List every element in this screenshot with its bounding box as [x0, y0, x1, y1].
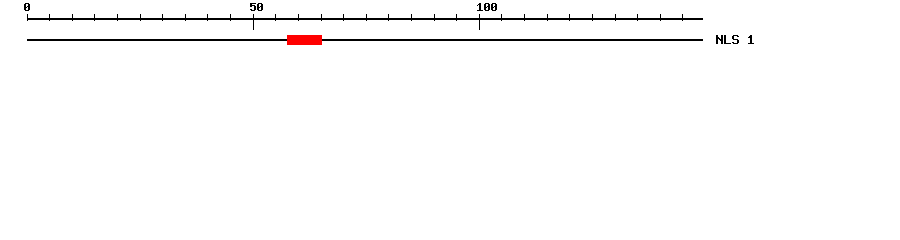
- ruler label 0: [24, 3, 30, 11]
- ruler tick at residue 10: [72, 14, 73, 21]
- ruler tick at residue 15: [94, 14, 95, 21]
- ruler tick at residue 120: [569, 14, 570, 21]
- ruler tick at residue 80: [388, 14, 389, 21]
- ruler tick at residue 65: [321, 14, 322, 21]
- ruler tick at residue 25: [140, 14, 141, 21]
- feature label NLS 1: [716, 35, 754, 44]
- ruler tick at residue 45: [230, 14, 231, 21]
- ruler tick at residue 70: [343, 14, 344, 21]
- sequence backbone line: [27, 39, 703, 41]
- ruler tick at residue 90: [434, 14, 435, 21]
- ruler tick at residue 115: [547, 14, 548, 21]
- ruler tick at residue 105: [501, 14, 502, 21]
- ruler tick at residue 55: [275, 14, 276, 21]
- ruler tick at residue 75: [366, 14, 367, 21]
- ruler tick at residue 130: [615, 14, 616, 21]
- major ruler tick at residue 50: [253, 14, 254, 30]
- ruler tick at residue 85: [411, 14, 412, 21]
- ruler tick at residue 40: [207, 14, 208, 21]
- ruler tick at residue 135: [637, 14, 638, 21]
- NLS 1 feature box (red, residues ~58-65): [287, 35, 322, 45]
- ruler tick at residue 30: [162, 14, 163, 21]
- ruler tick at residue 95: [456, 14, 457, 21]
- ruler axis line: [27, 18, 703, 20]
- ruler tick at residue 145: [682, 14, 683, 21]
- ruler tick at residue 125: [592, 14, 593, 21]
- ruler label 100: [477, 3, 497, 11]
- major ruler tick at residue 100: [479, 14, 480, 30]
- background: [0, 0, 900, 58]
- ruler label 50: [250, 3, 263, 11]
- ruler tick at residue 110: [524, 14, 525, 21]
- ruler tick at residue 60: [298, 14, 299, 21]
- ruler tick at residue 5: [49, 14, 50, 21]
- ruler tick at residue 0: [27, 14, 28, 21]
- ruler tick at residue 35: [185, 14, 186, 21]
- ruler tick at residue 140: [660, 14, 661, 21]
- ruler tick at residue 20: [117, 14, 118, 21]
